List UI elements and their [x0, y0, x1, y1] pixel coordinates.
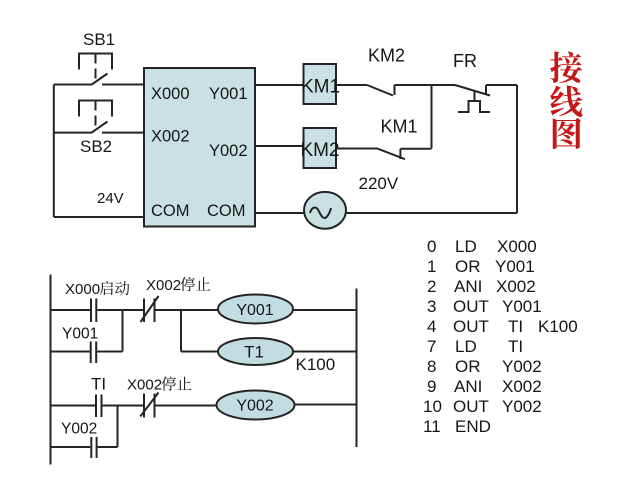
svg-text:X000: X000 [65, 281, 100, 298]
wire left rail to SB2 [54, 132, 91, 134]
branch2 vertical [117, 406, 119, 448]
branch1 wire [97, 351, 122, 353]
contact X002 (NC) rung2 [143, 394, 145, 418]
wire junction vertical [431, 85, 433, 149]
rung2 wire [51, 405, 96, 407]
svg-text:KM1: KM1 [381, 117, 418, 137]
contact SB1 blade [91, 74, 108, 86]
wire FR to right rail [486, 84, 517, 86]
svg-text:COM: COM [151, 202, 190, 220]
PLC box [144, 68, 255, 227]
svg-text:10OUTY002: 10OUTY002 [423, 397, 542, 416]
coil Y002 [217, 391, 295, 420]
right supply rail [516, 85, 518, 213]
T1 branch wire [181, 351, 218, 353]
wire KM1 contact to junction [400, 148, 431, 150]
contact X002 (NC) rung1 [143, 299, 145, 323]
FR thermal element connector [474, 92, 476, 102]
contactor coil KM1 [304, 64, 337, 104]
svg-text:SB1: SB1 [83, 30, 115, 49]
wire SB1 to X000 [102, 84, 144, 86]
pushbutton SB1 actuator [79, 54, 112, 70]
svg-text:TI: TI [91, 375, 106, 394]
svg-text:Y001: Y001 [236, 302, 273, 319]
svg-text:FR: FR [453, 51, 477, 71]
svg-text:0LDX000: 0LDX000 [427, 237, 537, 256]
svg-text:X002: X002 [151, 128, 190, 146]
FR fixed terminal tick [485, 85, 487, 95]
contactor coil KM2 [304, 128, 337, 168]
svg-text:8ORY002: 8ORY002 [427, 357, 542, 376]
branch2 wire [51, 446, 91, 448]
contact TI (NO) [95, 395, 97, 418]
rung2 wire [155, 405, 216, 407]
wire KM2 coil to KM1 contact [336, 148, 378, 150]
ladder left rail [50, 275, 52, 465]
T1 wire to rail [293, 351, 357, 353]
rung2 wire to rail [296, 404, 357, 406]
rung1 wire to rail [293, 309, 357, 311]
svg-text:KM1: KM1 [301, 77, 340, 98]
svg-text:COM: COM [207, 202, 246, 220]
svg-text:K100: K100 [296, 355, 336, 374]
svg-text:T1: T1 [244, 343, 264, 362]
svg-text:9ANIX002: 9ANIX002 [427, 377, 542, 396]
wire SB2 to X002 [102, 132, 144, 134]
wire KM1 coil to KM2 contact [336, 84, 367, 86]
svg-text:X000: X000 [151, 85, 190, 103]
svg-text:KM2: KM2 [301, 140, 340, 161]
svg-text:11END: 11END [423, 417, 491, 436]
svg-text:Y002: Y002 [209, 142, 248, 160]
wire Y002 to KM2 coil [255, 145, 304, 147]
svg-text:24V: 24V [97, 190, 124, 207]
contact Y002 (NO) [90, 437, 92, 458]
svg-text:3OUTY001: 3OUTY001 [427, 297, 542, 316]
svg-text:Y002: Y002 [236, 398, 273, 415]
contact KM1 (NC interlock) [378, 149, 405, 159]
svg-text:2ANIX002: 2ANIX002 [427, 277, 536, 296]
svg-text:7LDTI: 7LDTI [427, 337, 523, 356]
contact X000 (NO) [90, 299, 92, 323]
svg-text:4OUTTIK100: 4OUTTIK100 [427, 317, 578, 336]
pushbutton SB1 plunger [95, 54, 97, 83]
svg-text:Y001: Y001 [209, 85, 248, 103]
rung1 wire [51, 309, 91, 311]
wire 24V bottom [54, 216, 144, 218]
title char 线 [550, 86, 582, 117]
wire AC source to right rail [346, 212, 517, 214]
coil Y001 [218, 295, 293, 324]
AC source [304, 192, 346, 229]
rung1 wire [155, 309, 219, 311]
svg-text:SB2: SB2 [80, 137, 112, 156]
wire COM to AC source [255, 212, 305, 214]
wire KM2 contact to FR [395, 84, 456, 86]
left supply rail [53, 85, 55, 218]
svg-text:220V: 220V [359, 174, 399, 193]
svg-text:Y002: Y002 [61, 421, 97, 438]
svg-text:X002: X002 [127, 377, 162, 394]
rung2 wire [103, 405, 145, 407]
thermal relay FR contact blade [455, 85, 490, 96]
rung1 wire [97, 309, 144, 311]
svg-text:X002: X002 [146, 277, 181, 294]
pushbutton SB2 plunger [95, 101, 97, 131]
contact KM2 (NC interlock) [367, 85, 393, 96]
branch2 wire [98, 446, 118, 448]
title char 接 [550, 52, 582, 83]
branch1 wire [51, 351, 90, 353]
branch1 vertical [122, 310, 124, 352]
contact Y001 (NO) [90, 342, 92, 364]
timer coil T1 [218, 338, 293, 365]
title char 图 [553, 118, 581, 149]
svg-text:KM2: KM2 [368, 46, 405, 66]
ladder right rail [356, 289, 358, 448]
wire left rail to SB1 [54, 84, 91, 86]
pushbutton SB2 actuator [79, 101, 112, 117]
svg-text:1ORY001: 1ORY001 [427, 257, 535, 276]
wire Y001 to KM1 coil [255, 84, 304, 86]
svg-text:Y001: Y001 [62, 326, 98, 343]
FR thermal element [458, 101, 490, 112]
contact SB2 blade [91, 122, 108, 134]
T1 branch vertical [180, 310, 182, 352]
